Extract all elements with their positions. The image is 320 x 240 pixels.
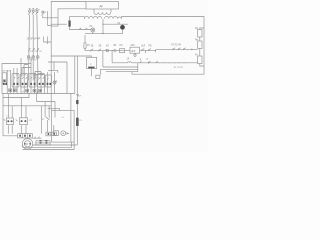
contact K1 on lamp line: [79, 28, 81, 30]
vertical line with contact I: [76, 56, 78, 100]
contact LT: [173, 48, 175, 50]
motor feet: [23, 145, 28, 150]
under band rail 2: [3, 94, 29, 98]
transformer center tap wire: [102, 19, 104, 34]
svg-text:Др: Др: [100, 4, 104, 8]
rail y70 right portion: [99, 69, 101, 74]
wires to 4G contact: [45, 102, 49, 117]
wire to band right vertical: [54, 62, 67, 94]
wire L1 top loop: [51, 2, 91, 58]
band vertical 4: [16, 68, 18, 94]
wire to box1 a: [7, 94, 9, 118]
wire to box2 b: [25, 106, 27, 118]
tall box left: [2, 73, 6, 84]
transformer secondary winding: [85, 16, 122, 18]
switch QS2 phase B: [32, 9, 34, 15]
wire fuse to bottom: [76, 126, 78, 145]
jog above 4G: [48, 108, 60, 110]
svg-text:ЛС: ЛС: [89, 26, 93, 28]
contact K2 on lamp line: [85, 28, 87, 30]
left rail down: [1, 73, 3, 94]
band vertical 13: [47, 72, 49, 94]
choke box Dr: [86, 2, 119, 10]
wire tap to left rail: [2, 64, 31, 74]
wire fuse to secondary left: [70, 17, 85, 21]
contact L3: [178, 48, 180, 50]
band vertical 2: [10, 70, 12, 94]
contact on rail A: [140, 59, 142, 63]
wire to box1 b: [11, 106, 13, 118]
svg-text:1КЛ: 1КЛ: [141, 45, 146, 47]
band vertical 14: [50, 56, 52, 94]
switch QS1 phase A: [28, 9, 30, 15]
fuse P2 pill: [84, 35, 90, 51]
fuse dark on line (lower): [76, 118, 82, 126]
svg-text:Рт: Рт: [80, 120, 82, 122]
contact at rail A start: [156, 61, 158, 63]
aux coil box b: [52, 132, 57, 135]
svg-text:2В: 2В: [99, 45, 102, 47]
starting resistor grid: [36, 140, 50, 145]
upper right rail: [156, 48, 198, 50]
svg-text:2КЛ: 2КЛ: [131, 51, 136, 53]
switch box VK: [120, 49, 125, 53]
tick left of box1: [4, 119, 18, 121]
contact 4G: [42, 117, 50, 121]
band vertical 10 (phase C cont): [37, 81, 39, 94]
row stub to rail B: [102, 54, 104, 67]
contact 2I: [76, 94, 81, 97]
dark lamp LK: [117, 23, 124, 34]
stub down from row: [102, 51, 104, 55]
inner vertical of controller: [70, 94, 72, 143]
svg-text:ЛТ ЛЗ ЛЧ: ЛТ ЛЗ ЛЧ: [171, 45, 182, 47]
svg-text:1Л: 1Л: [127, 59, 130, 61]
band vertical 9: [33, 75, 35, 94]
wire from P to transformer feed: [43, 9, 86, 18]
band upper connectors: [22, 65, 41, 77]
wire 4G to aux: [48, 120, 54, 132]
switch P: [30, 9, 46, 15]
band vertical 3: [13, 68, 15, 94]
relay box RB: [87, 57, 97, 68]
mid rail A: [112, 62, 197, 64]
contact 2V: [99, 49, 101, 52]
resistor R2: [195, 39, 202, 48]
wire RB down: [90, 69, 92, 77]
second mid vertical: [74, 56, 76, 94]
resistor chain stubs: [200, 28, 204, 66]
brake coil box 2T: [20, 118, 33, 125]
contact row dark dots: [3, 83, 51, 85]
controller inner small box: [54, 131, 59, 136]
junction arrow: [192, 48, 193, 50]
aux coil box a: [46, 132, 51, 136]
band vertical 5: [20, 58, 22, 94]
band vertical 11: [40, 72, 42, 94]
right lamp loop top: [103, 24, 128, 25]
contact N on lower rail: [148, 61, 150, 64]
mid rail B: [103, 66, 138, 68]
row stubs down right: [146, 49, 156, 53]
wire Z-jog: [48, 11, 58, 26]
svg-text:1П 2П ЗП: 1П 2П ЗП: [174, 67, 184, 69]
under band rail 4: [3, 105, 41, 107]
left rail to terminal row: [3, 103, 18, 135]
tacho circle: [61, 131, 69, 136]
wire L3 to fuse: [51, 23, 67, 25]
wire to box2 a: [20, 98, 22, 118]
thermal element marks: [28, 56, 39, 58]
mid-left corner wires: [48, 62, 58, 73]
contact 1KL: [142, 49, 144, 52]
long top wire to right: [122, 17, 205, 75]
resistor R1: [195, 28, 202, 37]
svg-text:1В: 1В: [91, 45, 94, 47]
controller big rect: [52, 110, 75, 142]
transformer primary winding: [94, 9, 111, 14]
wire jog to middle: [44, 37, 52, 45]
wire between fuses: [76, 104, 78, 118]
svg-text:1Р 2Р 3Р 4Р: 1Р 2Р 3Р 4Р: [27, 38, 41, 41]
contact 3L on phase C: [37, 48, 42, 53]
band vertical 6: [23, 68, 25, 94]
band vertical 8 (phase B cont): [30, 57, 32, 94]
svg-text:М: М: [26, 142, 28, 146]
relay box 2KL: [130, 47, 140, 53]
band vertical 1: [6, 70, 8, 94]
svg-text:1Р 2Р ЗР: 1Р 2Р ЗР: [27, 60, 37, 62]
junction dots: [102, 24, 112, 51]
bottom bus 1: [33, 144, 78, 146]
svg-text:2КЛ: 2КЛ: [131, 45, 136, 47]
under band rail 1: [2, 93, 75, 95]
contact 1L bumps: [128, 62, 132, 63]
contact 2L on phase B: [33, 48, 38, 53]
wire to big rect top: [41, 94, 55, 118]
wire rail4 to aux box a: [40, 106, 42, 134]
bottom bus 2: [23, 142, 72, 147]
contact row right small: [149, 49, 151, 52]
switch QS3 phase C: [36, 9, 39, 15]
rail connector vertical: [137, 63, 139, 72]
wire lamp bottom loop: [85, 32, 123, 34]
band vertical 7 (phase A cont): [27, 81, 29, 94]
svg-text:РБ: РБ: [149, 45, 153, 47]
bottom bus 3: [23, 142, 75, 149]
motor M: [21, 137, 33, 149]
contact 1V: [91, 49, 94, 52]
wire row to mid rails: [111, 51, 113, 63]
circle under 2KL box: [134, 53, 136, 56]
wires box1 down: [8, 125, 12, 133]
mid rail D: [106, 71, 138, 73]
band small ticks: [14, 77, 49, 79]
mid rail C: [100, 68, 138, 70]
wire phase C down: [37, 15, 38, 81]
fuse P1 (dark): [69, 21, 71, 27]
under band rail 3: [37, 101, 55, 103]
band vertical 15 with switch: [53, 72, 57, 94]
wire phase A down: [29, 15, 30, 81]
band vertical 12: [43, 75, 45, 94]
contact KL: [106, 49, 109, 52]
wire phase B down: [32, 15, 34, 81]
lamp LS: [89, 26, 95, 32]
svg-text:КЛ: КЛ: [106, 45, 109, 47]
dashes on rail A right: [158, 62, 185, 64]
fuse dark on line (upper): [76, 100, 78, 104]
left rail corner: [2, 94, 4, 104]
contact 1L on phase A: [28, 48, 33, 53]
contact VK bracket: [114, 49, 116, 52]
contact marks left of grid: [33, 137, 42, 139]
svg-text:1КЛ 2КЛ: 1КЛ 2КЛ: [2, 71, 11, 73]
svg-text:ПС: ПС: [120, 45, 124, 47]
small label box: [96, 75, 100, 78]
contact box row: [12, 74, 52, 88]
wire fuse down to lamp line: [70, 27, 91, 30]
resistor R3: [195, 54, 202, 63]
control row wire: [85, 50, 130, 52]
terminal row: [18, 134, 33, 138]
brake coil box 1T: [6, 116, 13, 125]
wires box2 down: [21, 125, 26, 133]
band lower marks: [9, 89, 42, 92]
contact L4: [184, 48, 186, 50]
band top connector: [34, 74, 44, 76]
under band rail 3 riser: [36, 94, 38, 102]
svg-text:Р: Р: [44, 10, 46, 14]
